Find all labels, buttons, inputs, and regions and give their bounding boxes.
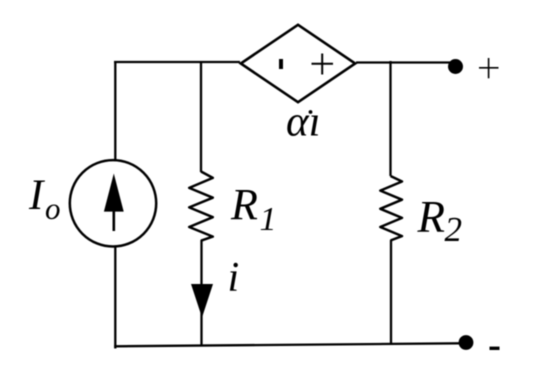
dependent source plus mark: [312, 63, 334, 65]
svg-text:i: i: [228, 255, 240, 301]
svg-text:R: R: [230, 180, 258, 229]
terminal minus sign bottom-right: [490, 347, 500, 350]
wire R2 branch upper: [389, 61, 391, 176]
terminal dot bottom-right: [459, 335, 474, 350]
wire R1 branch lower: [200, 240, 202, 346]
terminal dot top-right: [448, 59, 463, 74]
svg-text:o: o: [45, 191, 61, 226]
wire bottom horizontal: [114, 343, 460, 346]
dependent source diamond: [241, 25, 355, 102]
svg-text:R: R: [417, 192, 446, 242]
svg-text:I: I: [28, 172, 45, 219]
wire R1 branch upper: [200, 61, 202, 172]
resistor R1: [189, 172, 213, 241]
svg-text:αı: αı: [286, 99, 321, 146]
wire R2 branch lower: [390, 240, 392, 345]
current source Io arrow: [113, 205, 116, 231]
wire left vertical lower: [114, 246, 116, 349]
svg-text:2: 2: [445, 210, 463, 249]
terminal plus sign top-right: [479, 67, 499, 69]
wire left vertical upper: [114, 61, 116, 161]
svg-text:1: 1: [260, 201, 277, 238]
wire top-right horizontal: [356, 61, 453, 63]
wire top-left horizontal: [114, 61, 240, 63]
dependent source minus mark (vertical bar): [279, 59, 283, 69]
current source Io circle: [70, 160, 156, 246]
resistor R2: [380, 176, 402, 241]
current arrow i on R1 branch: [191, 284, 213, 318]
